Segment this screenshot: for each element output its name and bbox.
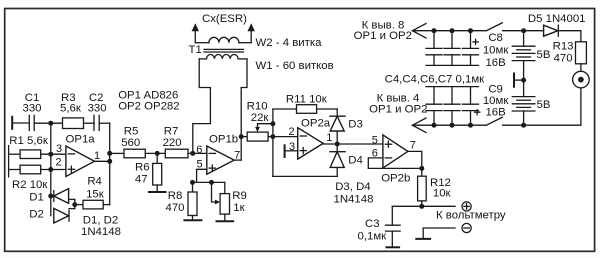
svg-text:1N4148: 1N4148 bbox=[81, 226, 121, 238]
svg-text:2: 2 bbox=[55, 157, 61, 169]
connector output jack bbox=[573, 71, 590, 88]
wire feedback vertical bbox=[50, 123, 52, 216]
svg-text:К вольтметру: К вольтметру bbox=[436, 210, 506, 222]
wire node A bottom bbox=[273, 175, 337, 177]
wire common rail upper bbox=[426, 64, 479, 66]
wire bbox=[34, 122, 62, 124]
node C1/R3 junction bbox=[48, 121, 53, 126]
svg-text:R11 10к: R11 10к bbox=[286, 94, 328, 106]
wire OP2a output bbox=[323, 143, 383, 145]
svg-text:Cx(ESR): Cx(ESR) bbox=[202, 13, 247, 25]
svg-text:D2: D2 bbox=[29, 208, 44, 220]
svg-text:W1 - 60 витков: W1 - 60 витков bbox=[256, 60, 334, 72]
op-amp OP2a bbox=[288, 118, 332, 159]
node R9 junction bbox=[209, 180, 214, 185]
svg-text:330: 330 bbox=[88, 103, 107, 115]
terminal arrow pin4 bbox=[369, 93, 427, 133]
terminal minus to voltmeter bbox=[462, 223, 471, 232]
resistor R2 bbox=[9, 165, 66, 191]
svg-text:R6: R6 bbox=[135, 161, 150, 173]
svg-text:ОР1 и ОР2: ОР1 и ОР2 bbox=[369, 104, 427, 116]
svg-text:R9: R9 bbox=[232, 190, 247, 202]
wire node A vertical bbox=[272, 109, 274, 176]
terminal plus to voltmeter bbox=[462, 202, 471, 211]
svg-text:0,1мк: 0,1мк bbox=[358, 231, 388, 243]
svg-text:1: 1 bbox=[94, 150, 100, 162]
svg-text:D1: D1 bbox=[29, 191, 44, 203]
svg-text:330: 330 bbox=[22, 103, 41, 115]
wire OP1b pin5 bbox=[197, 169, 207, 182]
wire T1 left lead bbox=[193, 59, 211, 153]
node R6 tap bbox=[155, 151, 160, 156]
svg-text:10к: 10к bbox=[433, 188, 452, 200]
ground battery mid bbox=[514, 73, 524, 88]
switch SA1.2 bbox=[486, 117, 502, 125]
node battery mid bbox=[521, 78, 526, 83]
ground minus bbox=[415, 238, 431, 240]
wire OP2b feedback bbox=[368, 158, 422, 169]
svg-text:16В: 16В bbox=[485, 57, 505, 69]
node R4 junction bbox=[72, 202, 77, 207]
diode D4 bbox=[330, 152, 363, 168]
wire bbox=[99, 122, 110, 124]
svg-text:5В: 5В bbox=[537, 99, 551, 111]
svg-text:47: 47 bbox=[135, 173, 148, 185]
svg-text:OP1 AD826: OP1 AD826 bbox=[118, 89, 178, 101]
svg-text:560: 560 bbox=[121, 137, 140, 149]
svg-text:ОР1 и ОР2: ОР1 и ОР2 bbox=[354, 30, 412, 42]
svg-text:OP1b: OP1b bbox=[209, 134, 238, 146]
node output tap bbox=[107, 159, 112, 164]
capacitor C9 bbox=[463, 84, 510, 126]
svg-text:OP2b: OP2b bbox=[381, 173, 410, 185]
svg-text:10мк: 10мк bbox=[483, 95, 510, 107]
wire input vertical bbox=[8, 146, 10, 177]
capacitor C5 bbox=[444, 31, 460, 66]
node C5 top bbox=[450, 28, 455, 33]
switch SA1.1 bbox=[486, 23, 502, 31]
svg-text:C3: C3 bbox=[365, 218, 380, 230]
diode D5 bbox=[528, 13, 586, 36]
resistor R6 bbox=[135, 153, 162, 192]
wire common rail lower bbox=[426, 86, 479, 88]
svg-text:R10: R10 bbox=[247, 100, 268, 112]
resistor R4 bbox=[75, 176, 110, 209]
node battery bottom bbox=[521, 123, 526, 128]
node battery top bbox=[521, 28, 526, 33]
svg-text:D3, D4: D3, D4 bbox=[335, 181, 370, 193]
svg-text:470: 470 bbox=[165, 202, 184, 214]
svg-text:R4: R4 bbox=[87, 176, 102, 188]
resistor R9 trimmer bbox=[212, 182, 247, 221]
ground R9 bbox=[216, 220, 235, 222]
terminal Cx left arrow bbox=[192, 23, 199, 43]
svg-text:T1: T1 bbox=[189, 44, 202, 56]
svg-text:5,6к: 5,6к bbox=[60, 103, 82, 115]
svg-text:470: 470 bbox=[554, 53, 573, 65]
wire top rail bbox=[412, 30, 486, 32]
op-amp OP2b bbox=[372, 134, 416, 184]
wire output node vertical bbox=[109, 123, 111, 204]
svg-text:W2 - 4 витка: W2 - 4 витка bbox=[256, 37, 323, 49]
svg-text:5В: 5В bbox=[537, 49, 551, 61]
resistor R10 trimmer bbox=[241, 100, 273, 141]
resistor R12 bbox=[418, 176, 452, 206]
capacitor C6 bbox=[426, 87, 442, 126]
resistor R8 bbox=[165, 182, 197, 220]
svg-text:7: 7 bbox=[410, 139, 416, 151]
ground R6 bbox=[148, 191, 167, 193]
wire jack to bottom rail bbox=[503, 88, 581, 125]
svg-text:D5 1N4001: D5 1N4001 bbox=[528, 13, 586, 25]
svg-text:R1 5,6к: R1 5,6к bbox=[9, 135, 49, 147]
wire OP1b output bbox=[234, 159, 241, 161]
svg-text:3: 3 bbox=[56, 143, 62, 155]
capacitor C4 bbox=[426, 31, 442, 66]
transformer T1 core bbox=[204, 48, 244, 50]
wire bottom row bbox=[193, 181, 225, 183]
svg-text:10мк: 10мк bbox=[483, 44, 510, 56]
resistor R3 bbox=[60, 92, 84, 129]
diode D1 bbox=[29, 189, 75, 204]
svg-text:R2 10к: R2 10к bbox=[12, 179, 48, 191]
battery GB1 5V bbox=[512, 31, 550, 80]
node diode output junction bbox=[335, 142, 340, 147]
svg-text:1: 1 bbox=[326, 132, 332, 144]
ground R8 bbox=[183, 219, 202, 221]
svg-text:22к: 22к bbox=[251, 112, 270, 124]
resistor R11 bbox=[273, 94, 337, 114]
node pin3 junction bbox=[48, 152, 53, 157]
wire OP1a output bbox=[95, 160, 110, 162]
svg-text:R8: R8 bbox=[168, 190, 183, 202]
node R10 left junction bbox=[239, 134, 244, 139]
node R8 junction bbox=[190, 180, 195, 185]
node C3 junction bbox=[419, 204, 424, 209]
svg-text:15к: 15к bbox=[86, 188, 105, 200]
svg-text:5: 5 bbox=[372, 134, 378, 146]
svg-text:R7: R7 bbox=[164, 125, 179, 137]
svg-text:1N4148: 1N4148 bbox=[334, 193, 374, 205]
node pin2 junction bbox=[48, 167, 53, 172]
svg-text:R5: R5 bbox=[124, 125, 139, 137]
diode D3 bbox=[330, 116, 363, 131]
svg-text:OP2 OP282: OP2 OP282 bbox=[118, 101, 179, 113]
node feedback junction bbox=[419, 166, 424, 171]
resistor R13 bbox=[553, 40, 587, 71]
capacitor C1 bbox=[12, 92, 41, 130]
node T1 tap bbox=[190, 151, 195, 156]
ground C3 bbox=[386, 246, 401, 248]
transformer T1 winding W1 bbox=[199, 55, 333, 72]
transformer T1 winding W2 bbox=[195, 37, 322, 49]
terminal Cx right arrow bbox=[248, 23, 255, 43]
svg-text:6: 6 bbox=[196, 144, 202, 156]
wire top rail right bbox=[503, 30, 544, 32]
wire D1-D2 right vertical bbox=[74, 199, 76, 208]
wire OP2a pin3 common bbox=[285, 144, 298, 158]
svg-text:1к: 1к bbox=[233, 202, 245, 214]
svg-text:2: 2 bbox=[288, 126, 294, 138]
svg-text:220: 220 bbox=[163, 137, 182, 149]
wire to R13 bbox=[558, 31, 581, 42]
wire bottom rail bbox=[412, 124, 486, 126]
node R5 tap bbox=[107, 151, 112, 156]
op-amp OP1b bbox=[196, 134, 240, 175]
node pin2 tap bbox=[270, 134, 275, 139]
diode D2 bbox=[29, 208, 75, 223]
svg-text:R13: R13 bbox=[553, 40, 574, 52]
resistor R7 bbox=[163, 125, 207, 157]
node C8 top bbox=[468, 28, 473, 33]
capacitor C8 bbox=[463, 31, 510, 69]
node C7 bottom bbox=[450, 123, 455, 128]
svg-text:OP2a: OP2a bbox=[301, 118, 331, 130]
svg-text:D3: D3 bbox=[348, 119, 363, 131]
svg-text:16В: 16В bbox=[485, 107, 505, 119]
capacitor C3 bbox=[358, 206, 401, 247]
op-amp OP1a bbox=[55, 134, 100, 177]
wire minus return bbox=[423, 228, 455, 239]
svg-text:C4,C4,C6,C7 0,1мк: C4,C4,C6,C7 0,1мк bbox=[385, 73, 486, 85]
battery GB2 5V bbox=[512, 80, 550, 125]
node C6 bottom bbox=[432, 123, 437, 128]
wire bbox=[84, 122, 95, 124]
svg-text:C9: C9 bbox=[488, 84, 503, 96]
node wiper tap bbox=[270, 121, 275, 126]
node C9 bottom bbox=[468, 123, 473, 128]
svg-text:D4: D4 bbox=[348, 154, 363, 166]
capacitor C2 bbox=[88, 92, 107, 130]
wire pin2 bbox=[273, 136, 298, 138]
wire T1 right lead bbox=[241, 59, 247, 160]
resistor R1 bbox=[9, 135, 66, 159]
svg-text:C8: C8 bbox=[488, 32, 503, 44]
capacitor C7 bbox=[444, 87, 460, 126]
svg-text:OP1a: OP1a bbox=[66, 134, 96, 146]
terminal arrow pin8 bbox=[354, 19, 426, 42]
wire D3 D4 vertical bbox=[336, 109, 338, 176]
wire output row bbox=[392, 205, 455, 207]
resistor R5 bbox=[110, 125, 166, 157]
node C4 top bbox=[432, 28, 437, 33]
node D1 junction bbox=[48, 194, 53, 199]
wire OP2b output bbox=[408, 151, 422, 176]
